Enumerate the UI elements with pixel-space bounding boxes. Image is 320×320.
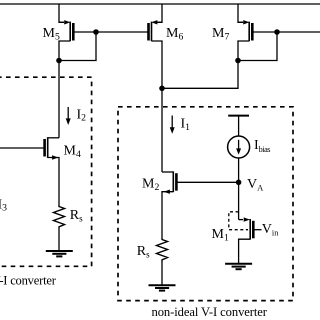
supply bar for Ibias (228, 115, 249, 117)
wire M6 source drop (157, 4, 162, 22)
transistor M7 (238, 20, 252, 60)
svg-text:M4: M4 (64, 144, 81, 160)
svg-text:VA: VA (247, 177, 264, 193)
non-ideal V-I converter dashed box (118, 107, 293, 301)
wire supply to current source (238, 116, 240, 136)
current arrow I2 (66, 107, 71, 125)
node M7 gate junction (274, 29, 280, 35)
svg-text:I1: I1 (181, 117, 191, 133)
svg-text:M5: M5 (43, 26, 60, 42)
wire Rs to ground (left) (58, 229, 60, 251)
ground (below Rs right) (149, 285, 176, 290)
svg-text:Ibias: Ibias (254, 138, 270, 154)
wire M5 diode connection (59, 32, 96, 61)
svg-text:M6: M6 (166, 26, 183, 42)
resistor Rs (right) (157, 238, 168, 262)
node M7 drain junction (235, 58, 241, 64)
svg-text:I3: I3 (0, 197, 7, 213)
transistor M2 (162, 171, 176, 238)
transistor M6 (149, 20, 163, 172)
svg-text:M1: M1 (212, 227, 229, 243)
node VA (236, 180, 242, 186)
wire M7 drain to M6 drain (162, 61, 238, 89)
wire M7 diode connection (238, 32, 277, 61)
svg-text:Vin: Vin (262, 222, 279, 238)
wire M4 gate lead to left edge (0, 147, 45, 149)
node gate junction M5/M6 (93, 29, 99, 35)
node M6 drain / M7 branch junction (159, 86, 165, 92)
svg-text:Rs: Rs (70, 208, 83, 223)
ideal V-I converter dashed box (0, 77, 92, 266)
ground (left box) (46, 251, 73, 256)
svg-text:ideal V-I converter: ideal V-I converter (0, 274, 57, 288)
wire M2 gate to node VA (176, 181, 238, 183)
resistor Rs (left) (54, 205, 65, 229)
wire M1 dashed gate-drain connection (229, 212, 248, 230)
current arrow I1 (170, 116, 175, 134)
transistor M5 (59, 20, 73, 60)
svg-text:I2: I2 (77, 107, 87, 123)
svg-text:Rs: Rs (137, 244, 150, 259)
wire Rs to ground (right) (161, 262, 163, 286)
wire current source to node VA (238, 158, 240, 182)
svg-text:non-ideal V-I converter: non-ideal V-I converter (152, 305, 268, 319)
wire M5 source drop (59, 4, 64, 22)
wire M7 source drop (238, 4, 243, 22)
wire M5 drain down to M4 (58, 61, 60, 138)
wire M1 gate to Vin (253, 229, 261, 231)
wire M5 gate to M6 gate (73, 31, 148, 33)
wire VA down to M1 (238, 182, 240, 219)
current source Ibias (228, 136, 250, 158)
transistor M1 (239, 217, 254, 263)
transistor M4 (45, 137, 59, 205)
wire M7 gate lead to right edge (252, 31, 320, 33)
node M5 drain junction (56, 58, 62, 64)
svg-text:M7: M7 (212, 26, 229, 42)
ground (below M1) (225, 264, 252, 269)
wire VDD rail (0, 3, 320, 5)
svg-text:M2: M2 (142, 177, 159, 193)
